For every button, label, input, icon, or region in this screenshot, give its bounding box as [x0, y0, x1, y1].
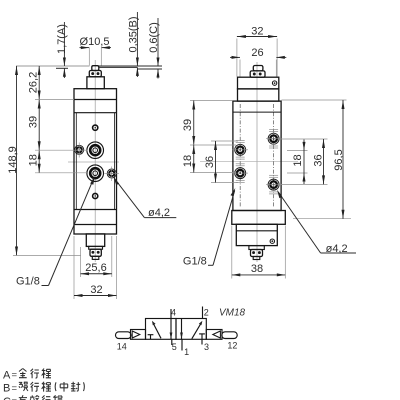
- flow line B with down arrow: [180, 319, 183, 340]
- dim 39 right view: [193, 101, 195, 146]
- T blocked port left box: [148, 335, 154, 340]
- svg-text:26,2: 26,2: [28, 72, 40, 93]
- svg-text:=: =: [12, 396, 18, 400]
- port P6: [233, 168, 249, 179]
- reference line y69 (C): [137, 68, 162, 70]
- ext line y172.8: [35, 172, 87, 174]
- glyph xing2 (line B): [31, 382, 40, 392]
- centerline horizontal right view: [200, 160, 298, 162]
- svg-text:96,5: 96,5: [333, 149, 345, 170]
- body section line y224.5: [74, 224, 117, 226]
- bottom fitting section: [86, 234, 104, 247]
- svg-text:39: 39: [28, 116, 40, 128]
- diagonal arrow left box: [152, 321, 161, 339]
- hidden line column left: [239, 104, 241, 207]
- port 2 stub: [202, 307, 204, 319]
- ext line y182.5: [211, 182, 238, 184]
- fitting screw: [272, 81, 276, 85]
- inner edge line left: [75, 113, 77, 210]
- glyph xing (line A): [31, 369, 40, 379]
- connector ball right: [97, 251, 100, 254]
- pilot frame right: [206, 330, 222, 340]
- dim 25,6: [80, 247, 82, 277]
- screw lower: [93, 193, 98, 198]
- dim 39 line: [38, 100, 40, 151]
- svg-text:14: 14: [117, 342, 127, 352]
- dim 32: [73, 236, 75, 299]
- svg-text:2: 2: [204, 307, 209, 317]
- svg-text:5: 5: [172, 342, 177, 352]
- ext line y150.4 right: [287, 149, 308, 151]
- dim 148,9 line: [16, 66, 18, 256]
- collar ball right: [97, 72, 100, 75]
- svg-text:G1/8: G1/8: [16, 276, 40, 288]
- centerline horizontal left view: [68, 161, 119, 163]
- bottom tip: [92, 256, 99, 259]
- svg-text:32: 32: [251, 25, 263, 37]
- pilot triangle right: [213, 331, 221, 338]
- connector ball left: [91, 251, 94, 254]
- top stem: [87, 77, 104, 89]
- glyph feng (line B): [71, 382, 80, 391]
- port small right P4: [105, 167, 120, 182]
- svg-text:36: 36: [204, 156, 216, 168]
- svg-text:4: 4: [171, 307, 176, 317]
- ext line y172.5: [190, 172, 236, 174]
- hidden thread marks: [236, 129, 278, 194]
- svg-text:B: B: [3, 383, 10, 395]
- main body: [233, 101, 281, 210]
- ext line y150.2: [35, 149, 88, 151]
- plunger right: [222, 332, 237, 339]
- svg-text:0,35(B): 0,35(B): [128, 16, 140, 52]
- svg-text:1: 1: [184, 347, 189, 357]
- ext line y99.5: [35, 99, 74, 101]
- dim 148,9 ext bottom: [13, 255, 81, 257]
- dim 32 top: [236, 39, 238, 77]
- port small left P1: [75, 143, 84, 158]
- dim 38: [231, 226, 233, 279]
- paren close (line B): [83, 382, 86, 391]
- glyph cheng (line A): [42, 369, 51, 379]
- leader G1/8 right: [208, 188, 235, 265]
- top button collar: [89, 71, 101, 77]
- svg-text:12: 12: [227, 341, 237, 351]
- svg-text:36: 36: [313, 154, 325, 166]
- pilot frame left: [131, 330, 146, 340]
- svg-text:32: 32: [90, 284, 102, 296]
- svg-text:VM18: VM18: [219, 308, 246, 319]
- port 1 stub: [181, 339, 183, 350]
- glyph you top sliver (line C): [19, 395, 27, 400]
- top button tip right view: [253, 66, 263, 71]
- svg-text:ø4,2: ø4,2: [326, 243, 348, 255]
- dim 0,6(C): [157, 18, 159, 66]
- ext line top y100 right: [282, 99, 347, 101]
- dim 96,5: [342, 100, 344, 219]
- top fitting row2: [238, 89, 279, 101]
- bottom tip right view: [253, 257, 260, 260]
- body section line y99.5: [74, 99, 117, 101]
- right box: [176, 319, 206, 340]
- port P7: [266, 133, 281, 144]
- port P8: [266, 179, 281, 190]
- ext line top y100.5 left: [190, 100, 233, 102]
- svg-text:26: 26: [251, 47, 263, 59]
- ext line y145: [190, 144, 236, 146]
- ext line y218.7: [293, 218, 351, 220]
- top button collar right view: [250, 71, 265, 77]
- glyph zhong (line B): [60, 382, 68, 392]
- body section line y209.5: [74, 209, 117, 211]
- dim 26: [239, 60, 241, 77]
- ext line y139 right: [279, 138, 328, 140]
- inner edge line right: [114, 113, 116, 210]
- port 3 stub: [201, 339, 203, 344]
- ext line y173 right: [287, 172, 308, 174]
- dim 18 line: [38, 150, 40, 173]
- flow line A with down arrow: [170, 319, 173, 340]
- left box: [146, 319, 177, 340]
- dim 18 right side (outside arrows): [303, 140, 305, 185]
- glyph cheng2 (line B): [42, 382, 51, 392]
- glyph cheng3 top sliver (line C): [53, 395, 62, 400]
- svg-text:0,6(C): 0,6(C): [148, 22, 160, 53]
- port P5: [233, 144, 249, 155]
- centerline vertical right view: [256, 62, 258, 262]
- cap screw: [270, 239, 274, 243]
- pilot triangle left: [132, 331, 140, 338]
- port 5 stub: [171, 339, 173, 345]
- svg-text:1,7(A): 1,7(A): [56, 24, 68, 54]
- leader O4,2 left: [114, 177, 177, 218]
- body internal line y112.1: [233, 111, 281, 113]
- leader G1/8 left: [42, 176, 95, 286]
- dim 1,7(A): [63, 22, 65, 66]
- svg-text:=: =: [12, 383, 18, 394]
- collar ball left: [91, 72, 94, 75]
- bottom cap: [236, 224, 277, 245]
- dim O10,5: [88, 48, 90, 66]
- glyph xing3 top sliver (line C): [42, 395, 51, 400]
- body section line y112.7: [74, 112, 117, 114]
- glyph xiao top sliver (line C): [30, 395, 39, 400]
- plunger left: [116, 332, 132, 339]
- svg-text:148,9: 148,9: [7, 146, 19, 174]
- bottom connector step: [249, 246, 264, 250]
- dim 0,35(B): [136, 12, 138, 66]
- glyph quan (line A): [19, 369, 27, 378]
- svg-text:18: 18: [292, 154, 304, 166]
- svg-text:18: 18: [28, 154, 40, 166]
- svg-text:=: =: [12, 370, 18, 381]
- screw upper: [93, 125, 98, 130]
- glyph yu (line B): [19, 382, 28, 391]
- cap internal line: [236, 230, 277, 232]
- svg-text:3: 3: [204, 342, 209, 352]
- port 4 stub: [170, 309, 172, 319]
- svg-text:39: 39: [182, 119, 194, 131]
- bottom connector: [251, 250, 263, 257]
- svg-text:ø4,2: ø4,2: [148, 207, 170, 219]
- hidden line column right: [273, 104, 275, 207]
- T blocked port right box: [199, 334, 205, 339]
- dim 36 right side: [323, 139, 325, 184]
- dim 18 right view left: [193, 145, 195, 173]
- svg-text:25,6: 25,6: [85, 262, 106, 274]
- svg-text:Ø10,5: Ø10,5: [80, 36, 110, 48]
- ext line y141: [211, 140, 238, 142]
- collar balls: [253, 73, 256, 76]
- svg-text:18: 18: [182, 155, 194, 167]
- bottom flange: [232, 211, 285, 225]
- top button tip: [92, 66, 99, 71]
- body outline: [74, 89, 117, 234]
- top reference line y66: [16, 65, 90, 67]
- bottom collar step: [89, 246, 103, 249]
- svg-text:G1/8: G1/8: [183, 255, 207, 267]
- svg-text:38: 38: [251, 263, 263, 275]
- top fitting row1: [238, 77, 279, 89]
- leader O4,2 right: [277, 190, 356, 253]
- dim 36 right view left: [215, 141, 217, 183]
- paren open (line B): [54, 382, 57, 391]
- port big lower P3: [87, 165, 104, 182]
- dim 26,2 line: [38, 66, 40, 100]
- centerline vertical left view: [94, 60, 96, 262]
- bottom connector: [90, 249, 101, 256]
- reference line y68.3 short left: [56, 67, 68, 69]
- diagonal arrow right box: [192, 321, 203, 339]
- ext line y184.4 right: [279, 183, 328, 185]
- svg-text:C: C: [3, 396, 11, 400]
- reference line y67.4 (B): [99, 66, 137, 68]
- port big upper P2: [87, 142, 104, 159]
- svg-text:A: A: [3, 369, 11, 381]
